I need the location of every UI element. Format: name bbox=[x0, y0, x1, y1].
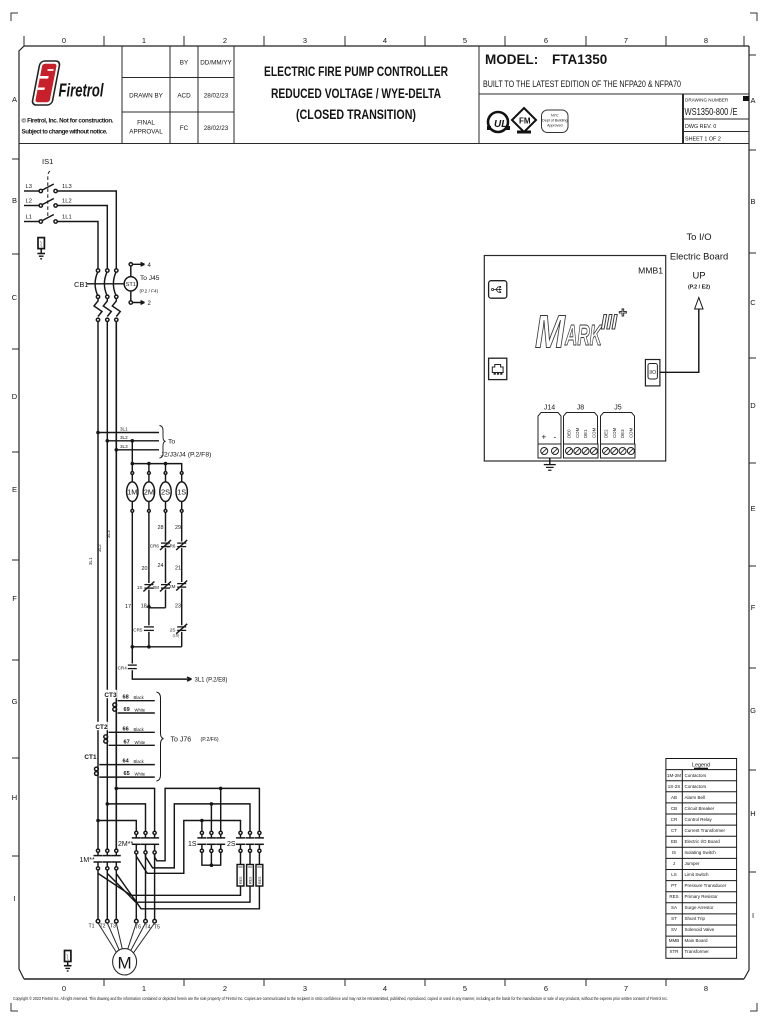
svg-text:Black: Black bbox=[134, 695, 145, 700]
svg-text:Surge Arrestor: Surge Arrestor bbox=[685, 905, 715, 910]
bottom ruler numbers bbox=[62, 984, 708, 993]
svg-text:Legend: Legend bbox=[692, 763, 710, 769]
coil 2M bbox=[143, 464, 154, 513]
shunt trip ST1 bbox=[124, 263, 137, 305]
wire 1M pole2 to T2 bbox=[106, 870, 108, 919]
svg-text:E: E bbox=[750, 504, 755, 513]
svg-text:L3: L3 bbox=[26, 184, 32, 190]
svg-text:3: 3 bbox=[303, 984, 307, 993]
resistor RES1 bbox=[237, 865, 244, 887]
svg-text:7: 7 bbox=[624, 984, 628, 993]
svg-text:ELECTRIC FIRE PUMP CONTROLLER: ELECTRIC FIRE PUMP CONTROLLER bbox=[264, 64, 448, 79]
coil 2S bbox=[160, 464, 171, 513]
right ruler letters bbox=[750, 96, 756, 920]
wire 1L1 bbox=[57, 222, 98, 269]
svg-text:C: C bbox=[750, 298, 756, 307]
svg-text:+: + bbox=[542, 433, 547, 442]
top ruler numbers bbox=[62, 36, 708, 45]
wire 1M pole3 to T3 bbox=[115, 870, 117, 919]
svg-text:T3: T3 bbox=[110, 924, 116, 930]
UL listed mark bbox=[487, 112, 510, 132]
wire tap phase1 to 2M pole1 bbox=[98, 821, 136, 832]
svg-text:5: 5 bbox=[463, 36, 467, 45]
IS1 blade pole L2 bbox=[42, 199, 53, 205]
node L1 terminal bbox=[39, 220, 42, 223]
svg-text:2S: 2S bbox=[227, 841, 236, 848]
wire L3 lead bbox=[24, 190, 39, 192]
svg-text:1S: 1S bbox=[177, 488, 186, 497]
svg-text:Limit Switch: Limit Switch bbox=[685, 872, 710, 877]
svg-text:1M-2M: 1M-2M bbox=[667, 773, 681, 778]
wire 2L2 vertical phase bus bbox=[106, 322, 108, 850]
wire tap phase3 to 2M pole3 bbox=[116, 788, 154, 831]
wire T5 fan to motor bbox=[134, 923, 155, 953]
svg-text:Electric Board: Electric Board bbox=[670, 251, 728, 262]
svg-text:0: 0 bbox=[62, 36, 66, 45]
svg-text:XTR: XTR bbox=[670, 949, 680, 954]
connector J8 terminals bbox=[564, 444, 599, 458]
wire T1 fan to motor bbox=[98, 923, 117, 953]
svg-text:COM: COM bbox=[575, 427, 580, 438]
svg-text:Alarm Bell: Alarm Bell bbox=[685, 795, 706, 800]
svg-text:2: 2 bbox=[223, 984, 227, 993]
svg-text:A: A bbox=[12, 95, 17, 104]
svg-text:CR: CR bbox=[671, 817, 678, 822]
svg-text:COM: COM bbox=[591, 427, 596, 438]
svg-text:Black: Black bbox=[134, 759, 145, 764]
wire 2M pole1 riser to 1S/2S feed bbox=[136, 821, 240, 874]
wire 69 bbox=[118, 712, 155, 714]
node motor terminal T1 bbox=[96, 919, 100, 923]
svg-text:Circuit Breaker: Circuit Breaker bbox=[685, 806, 715, 811]
svg-text:5: 5 bbox=[463, 984, 467, 993]
wire 2M pole3 to T5 bbox=[154, 854, 156, 919]
svg-text:Jumper: Jumper bbox=[685, 861, 701, 866]
node 1L2 terminal bbox=[54, 204, 57, 207]
svg-text:H: H bbox=[750, 809, 755, 818]
svg-text:AB: AB bbox=[671, 795, 677, 800]
svg-text:68: 68 bbox=[123, 695, 129, 701]
title block bottom line bbox=[19, 143, 749, 145]
IS1 blade pole L1 bbox=[42, 215, 53, 221]
resistor RES2 bbox=[247, 865, 254, 887]
svg-text:To: To bbox=[168, 439, 175, 446]
svg-text:DD/MM/YY: DD/MM/YY bbox=[200, 60, 232, 67]
svg-text:3L2: 3L2 bbox=[120, 435, 128, 440]
NYC dept of building mark bbox=[542, 110, 569, 133]
svg-text:3L3: 3L3 bbox=[120, 444, 128, 449]
svg-text:J14: J14 bbox=[544, 405, 555, 412]
USB port icon bbox=[489, 281, 507, 299]
svg-text:ST: ST bbox=[671, 916, 677, 921]
sheet bottom border line bbox=[24, 978, 744, 980]
svg-text:SV: SV bbox=[671, 927, 677, 932]
svg-text:CR4: CR4 bbox=[118, 666, 128, 671]
svg-text:1M**: 1M** bbox=[80, 857, 95, 864]
svg-text:28/02/23: 28/02/23 bbox=[204, 125, 229, 132]
svg-text:2S: 2S bbox=[170, 627, 176, 632]
current transformer CT3 windings bbox=[113, 703, 117, 707]
svg-text:4: 4 bbox=[383, 984, 387, 993]
svg-text:21: 21 bbox=[175, 566, 181, 572]
svg-text:(CLOSED TRANSITION): (CLOSED TRANSITION) bbox=[296, 107, 416, 122]
main board MMB1 outline bbox=[484, 256, 665, 462]
svg-text:BY: BY bbox=[180, 60, 189, 67]
svg-text:T1: T1 bbox=[89, 924, 95, 930]
svg-text:CT1: CT1 bbox=[84, 754, 97, 761]
ground G3 under J14 bbox=[544, 458, 556, 470]
wire T6 fan to motor bbox=[128, 923, 137, 950]
svg-text:T5: T5 bbox=[154, 925, 160, 931]
svg-text:CB1: CB1 bbox=[74, 280, 89, 289]
svg-text:FINAL: FINAL bbox=[137, 120, 155, 127]
svg-text:SA: SA bbox=[671, 905, 677, 910]
wire I/O to electric board bbox=[660, 310, 699, 373]
wire 1M pole1 to T1 bbox=[97, 870, 99, 919]
svg-text:66: 66 bbox=[123, 726, 129, 732]
wire T3 fan to motor bbox=[116, 923, 122, 950]
wire T2 fan to motor bbox=[107, 923, 119, 951]
wire L2 lead bbox=[24, 205, 39, 207]
svg-text:Solenoid Valve: Solenoid Valve bbox=[685, 927, 715, 932]
left ruler letters bbox=[12, 95, 18, 903]
current transformer CT2 windings bbox=[104, 735, 108, 739]
Firetrol logo emblem bbox=[32, 61, 61, 105]
wire 2M pole1 to T6 bbox=[135, 854, 137, 919]
wire 2L1 vertical phase bus bbox=[97, 322, 99, 850]
node 3L3 tap junction bbox=[115, 448, 119, 452]
svg-text:UL: UL bbox=[494, 119, 507, 130]
svg-text:1S: 1S bbox=[137, 585, 143, 590]
svg-text:1M: 1M bbox=[127, 488, 137, 497]
left ruler ticks bbox=[12, 159, 19, 856]
svg-text:To I/O: To I/O bbox=[686, 231, 711, 242]
contactor 1S pole 2 bbox=[207, 831, 216, 852]
wire T4 fan to motor bbox=[131, 923, 146, 951]
svg-text:ACD: ACD bbox=[177, 93, 191, 100]
node link junction bbox=[146, 604, 151, 608]
node motor terminal T4 bbox=[144, 919, 148, 923]
svg-text:White: White bbox=[135, 708, 146, 713]
svg-text:IS: IS bbox=[672, 850, 676, 855]
svg-text:PT: PT bbox=[671, 883, 677, 888]
right ruler ticks bbox=[749, 55, 756, 872]
coil 1S bbox=[176, 472, 187, 513]
wire rail 2 under coil 2M bbox=[148, 512, 150, 647]
svg-text:CT3: CT3 bbox=[104, 692, 117, 699]
svg-text:G: G bbox=[12, 697, 18, 706]
svg-text:D: D bbox=[12, 392, 18, 401]
svg-text:1S-2S: 1S-2S bbox=[668, 784, 681, 789]
svg-text:J: J bbox=[673, 861, 675, 866]
wire coil return bus bbox=[132, 646, 181, 648]
svg-text:1S: 1S bbox=[188, 841, 197, 848]
svg-text:Primary Resistor: Primary Resistor bbox=[685, 894, 719, 899]
svg-text:67: 67 bbox=[124, 739, 130, 745]
node L3 terminal bbox=[39, 189, 42, 192]
svg-text:1: 1 bbox=[142, 36, 146, 45]
wire 1L3 bbox=[57, 191, 116, 269]
wire RES3 return to T3 bbox=[116, 874, 259, 909]
node return bus junction rail2 bbox=[147, 645, 151, 649]
wire 67 bbox=[109, 744, 155, 746]
svg-text:Firetrol: Firetrol bbox=[59, 81, 105, 101]
svg-text:3L1 (P.2/E8): 3L1 (P.2/E8) bbox=[195, 678, 228, 684]
contact 1S NC on rail 2 bbox=[137, 582, 155, 592]
svg-text:III: III bbox=[601, 311, 618, 334]
svg-text:NYC: NYC bbox=[551, 114, 559, 118]
bottom ruler ticks bbox=[104, 979, 666, 986]
wire 2M pole2 to T4 bbox=[145, 854, 147, 919]
top ruler ticks bbox=[24, 36, 744, 46]
svg-text:IS1: IS1 bbox=[42, 157, 53, 166]
svg-text:65: 65 bbox=[124, 771, 130, 777]
wire RES1 return to T1 bbox=[98, 873, 241, 895]
svg-text:2M**: 2M** bbox=[118, 841, 133, 848]
arrow up to electric board bbox=[695, 298, 703, 310]
Ethernet port icon bbox=[489, 358, 507, 379]
svg-text:2M: 2M bbox=[153, 585, 160, 590]
drawing title bbox=[264, 64, 448, 122]
svg-text:APPROVAL: APPROVAL bbox=[129, 129, 163, 136]
svg-text:Main Board: Main Board bbox=[685, 938, 709, 943]
svg-text:69: 69 bbox=[124, 707, 130, 713]
contactor 1S pole 3 bbox=[216, 831, 225, 852]
svg-text:M: M bbox=[118, 954, 132, 973]
node feed junction 1S pole3 bbox=[219, 787, 223, 791]
svg-text:DRAWING NUMBER: DRAWING NUMBER bbox=[685, 98, 729, 103]
svg-text:64: 64 bbox=[123, 759, 130, 765]
wire 2S pole2 to resistor RES2 bbox=[249, 852, 251, 864]
svg-text:J8: J8 bbox=[577, 405, 585, 412]
wire 1S star point bbox=[202, 852, 221, 865]
wire 1S pole1 drop bbox=[201, 821, 203, 832]
CB1 pole 2 bbox=[103, 269, 111, 322]
svg-text:3: 3 bbox=[303, 36, 307, 45]
svg-text:1: 1 bbox=[142, 984, 146, 993]
svg-text:(P.2 / E2): (P.2 / E2) bbox=[688, 285, 710, 291]
node motor terminal T5 bbox=[153, 919, 157, 923]
fold mark bbox=[743, 96, 749, 101]
corner mark top-right bbox=[750, 13, 757, 21]
svg-text:1L3: 1L3 bbox=[62, 184, 72, 190]
ground G2 motor ground bbox=[64, 951, 72, 972]
svg-text:2: 2 bbox=[223, 36, 227, 45]
wire 64 bbox=[99, 764, 155, 766]
connector J5 terminals bbox=[601, 444, 636, 458]
contactor 2S pole 3 bbox=[255, 831, 264, 852]
svg-text:I: I bbox=[752, 911, 754, 920]
wire L1 lead bbox=[24, 221, 39, 223]
wire 1S pole2 to star bbox=[210, 852, 212, 865]
CB1 pole 1 bbox=[94, 269, 102, 322]
I/O connector port bbox=[645, 360, 660, 386]
svg-text:28/02/23: 28/02/23 bbox=[204, 93, 229, 100]
node coil bus junction 2S bbox=[164, 462, 168, 466]
node feed junction 1S pole1 bbox=[200, 819, 204, 823]
svg-text:Black: Black bbox=[134, 727, 145, 732]
sheet left border line with chamfers bbox=[19, 46, 24, 979]
svg-text:B: B bbox=[750, 197, 755, 206]
svg-text:Approved: Approved bbox=[547, 124, 562, 128]
svg-text:CT2: CT2 bbox=[95, 724, 108, 731]
legend description column bbox=[685, 773, 727, 954]
corner mark top-left bbox=[11, 13, 18, 21]
svg-text:24: 24 bbox=[158, 563, 164, 569]
svg-text:COM: COM bbox=[612, 427, 617, 438]
svg-text:D: D bbox=[750, 401, 756, 410]
contactor 2M pole 2 bbox=[141, 831, 150, 854]
node tap junction phase2 bbox=[106, 802, 110, 806]
contact 2S NC on rail 4 bbox=[170, 624, 187, 638]
svg-text:2M: 2M bbox=[169, 584, 176, 589]
title block vertical dividers bbox=[122, 46, 479, 144]
svg-text:G: G bbox=[750, 706, 756, 715]
svg-text:20: 20 bbox=[142, 566, 148, 572]
svg-text:Dept of Building: Dept of Building bbox=[542, 119, 567, 123]
node 1L1 terminal bbox=[54, 220, 57, 223]
approvals table texts bbox=[129, 60, 232, 136]
svg-text:White: White bbox=[135, 740, 146, 745]
wire 68 bbox=[118, 700, 155, 702]
legend abbreviation column bbox=[667, 773, 681, 954]
motor M bbox=[113, 949, 137, 975]
svg-text:C: C bbox=[12, 293, 18, 302]
svg-text:CR5: CR5 bbox=[133, 627, 143, 632]
connector J5 body bbox=[601, 413, 635, 445]
contactor 2S pole 2 bbox=[246, 831, 255, 852]
node 1L3 terminal bbox=[54, 189, 57, 192]
svg-text:23: 23 bbox=[175, 604, 181, 610]
svg-text:To J45: To J45 bbox=[140, 275, 160, 282]
svg-text:FC: FC bbox=[180, 125, 189, 132]
svg-text:SHEET 1 OF 2: SHEET 1 OF 2 bbox=[685, 137, 721, 143]
svg-text:To J76: To J76 bbox=[171, 737, 192, 744]
svg-text:2M: 2M bbox=[144, 488, 154, 497]
svg-text:EB: EB bbox=[671, 839, 677, 844]
wire 2S pole3 to resistor RES3 bbox=[258, 852, 260, 864]
svg-text:COM: COM bbox=[628, 427, 633, 438]
svg-text:Current Transformer: Current Transformer bbox=[685, 828, 726, 833]
svg-text:CR6: CR6 bbox=[150, 544, 160, 549]
wire ST1 terminal 2 arrow bbox=[133, 301, 145, 305]
svg-text:MMB: MMB bbox=[669, 938, 680, 943]
coil 1M bbox=[127, 464, 138, 513]
wire 2S pole1 to resistor RES1 bbox=[240, 852, 242, 864]
svg-text:3L1: 3L1 bbox=[88, 557, 93, 565]
svg-text:J2/J3/J4 (P.2/F8): J2/J3/J4 (P.2/F8) bbox=[161, 452, 212, 459]
wire tap 3L1 bbox=[98, 432, 159, 434]
svg-text:M: M bbox=[535, 306, 566, 358]
contact 2M NC on rail 3 bbox=[153, 582, 171, 592]
wire rail1 to CR4 bbox=[131, 647, 133, 664]
svg-text:MMB1: MMB1 bbox=[638, 266, 663, 276]
svg-text:FM: FM bbox=[519, 117, 531, 126]
svg-text:I/O: I/O bbox=[649, 370, 656, 376]
node 3L2 tap junction bbox=[106, 439, 110, 443]
wire rail 3 under coil 2S bbox=[165, 512, 167, 608]
wire rail 4 under coil 1S bbox=[181, 512, 183, 647]
node coil bus junction 2M bbox=[147, 462, 151, 466]
svg-text:1L2: 1L2 bbox=[62, 199, 72, 205]
sheet top border line bbox=[24, 45, 749, 47]
svg-text:F: F bbox=[12, 594, 17, 603]
IS1 mechanical link dashed line bbox=[48, 171, 50, 218]
svg-text:3L2: 3L2 bbox=[97, 544, 102, 552]
svg-text:UP: UP bbox=[692, 270, 705, 281]
svg-text:DRAWN BY: DRAWN BY bbox=[129, 93, 164, 100]
wire 1S pole3 drop bbox=[220, 788, 222, 831]
svg-text:LS: LS bbox=[671, 872, 677, 877]
contactor 1S pole 1 bbox=[197, 831, 206, 852]
svg-text:WS1350-800 /E: WS1350-800 /E bbox=[685, 106, 738, 118]
node star point junction bbox=[210, 863, 214, 867]
label CT2 bbox=[95, 722, 108, 731]
svg-text:FTA1350: FTA1350 bbox=[552, 52, 607, 67]
CB1 pole 3 bbox=[112, 269, 120, 322]
svg-text:DE3: DE3 bbox=[620, 429, 625, 438]
svg-text:F: F bbox=[751, 603, 756, 612]
svg-text:0: 0 bbox=[62, 984, 66, 993]
svg-text:ARK: ARK bbox=[564, 320, 603, 352]
contact CR6 NC on rail 4 bbox=[166, 540, 187, 550]
svg-text:8: 8 bbox=[704, 36, 708, 45]
drawing number box bbox=[682, 94, 684, 144]
svg-text:4: 4 bbox=[383, 36, 387, 45]
node tap junction phase1 bbox=[96, 819, 100, 823]
svg-text:18: 18 bbox=[141, 604, 147, 610]
wire 66 bbox=[109, 731, 155, 733]
wire coil feed drop bbox=[131, 441, 133, 464]
svg-text:B: B bbox=[12, 196, 17, 205]
svg-text:J5: J5 bbox=[614, 405, 622, 412]
node tap junction phase3 bbox=[115, 787, 119, 791]
wire ST1 terminal 4 arrow bbox=[133, 263, 145, 267]
wire 65 bbox=[99, 776, 155, 778]
svg-text:(P.2/F6): (P.2/F6) bbox=[201, 737, 219, 743]
svg-text:Shunt Trip: Shunt Trip bbox=[685, 916, 706, 921]
svg-text:Pressure Transducer: Pressure Transducer bbox=[685, 883, 727, 888]
MARK III+ logo bbox=[535, 304, 627, 358]
svg-text:29: 29 bbox=[175, 525, 181, 531]
svg-text:RES: RES bbox=[249, 876, 253, 884]
node coil feed tap on 3L2 bbox=[131, 439, 135, 443]
wire tap 3L2 bbox=[107, 440, 159, 442]
FM approved mark bbox=[512, 108, 536, 134]
resistor RES3 bbox=[256, 865, 263, 887]
svg-text:White: White bbox=[135, 772, 146, 777]
wire 1L2 bbox=[57, 206, 107, 269]
contact CR5 NO on rail 2 bbox=[133, 625, 154, 632]
svg-text:DE1: DE1 bbox=[583, 429, 588, 438]
svg-text:7: 7 bbox=[624, 36, 628, 45]
svg-text:6: 6 bbox=[544, 984, 548, 993]
contactor 1M pole 3 bbox=[112, 849, 121, 870]
svg-text:Isolating Switch: Isolating Switch bbox=[685, 850, 717, 855]
approvals table row lines bbox=[122, 78, 234, 113]
svg-text:Control Relay: Control Relay bbox=[685, 817, 713, 822]
node coil bus junction 1M bbox=[131, 462, 135, 466]
wire RES2 return to T2 bbox=[107, 873, 250, 902]
IS1 blade pole L3 bbox=[42, 184, 53, 190]
connector J14 body bbox=[538, 413, 561, 445]
node motor terminal T3 bbox=[115, 919, 119, 923]
svg-text:REDUCED VOLTAGE / WYE-DELTA: REDUCED VOLTAGE / WYE-DELTA bbox=[271, 86, 441, 101]
wire 2L3 vertical phase bus bbox=[115, 322, 117, 850]
svg-text:3L1: 3L1 bbox=[120, 427, 128, 432]
svg-text:Copyright © 2023 Firetrol Inc.: Copyright © 2023 Firetrol Inc. All right… bbox=[13, 995, 668, 1001]
wire 2M pole3 riser to 1S/2S feed bbox=[155, 788, 260, 860]
